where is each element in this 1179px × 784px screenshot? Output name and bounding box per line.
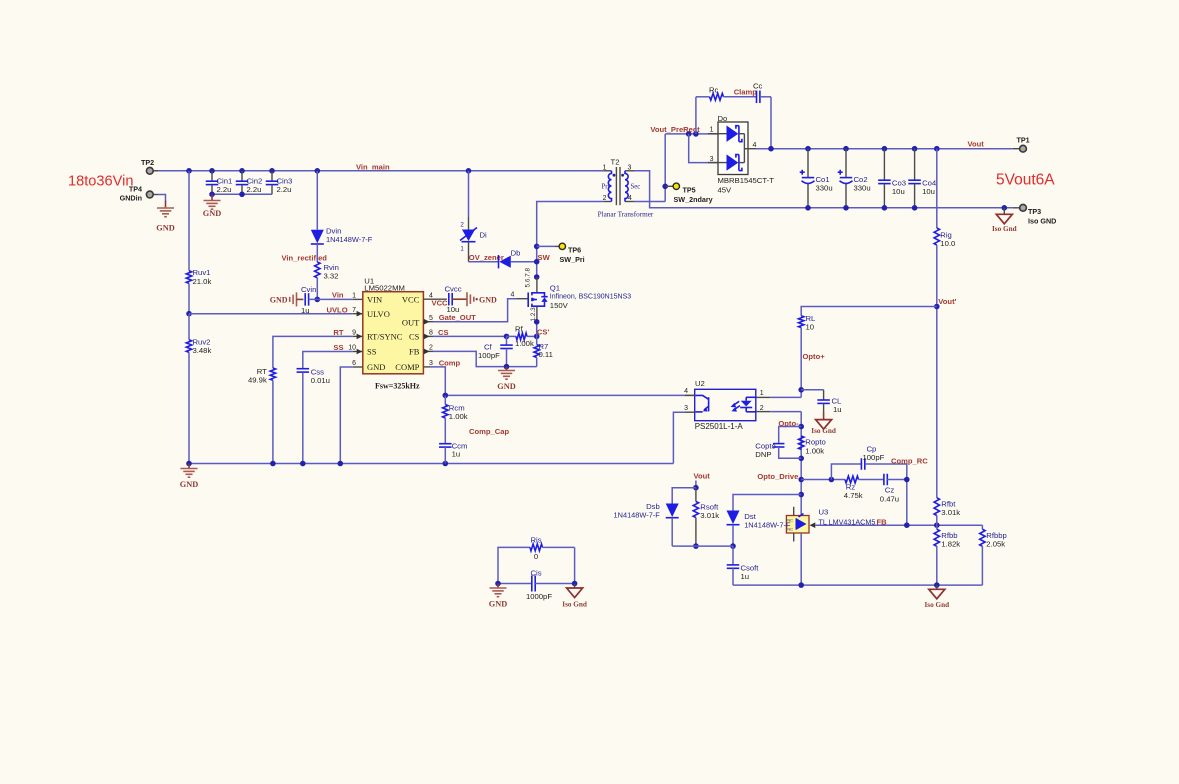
svg-text:1N4148W-7-F: 1N4148W-7-F bbox=[326, 235, 373, 244]
resistor Rfbbp 2.05k bbox=[980, 525, 1007, 585]
svg-text:Co4: Co4 bbox=[922, 178, 937, 187]
wire soft start top bbox=[672, 488, 696, 504]
svg-text:Csoft: Csoft bbox=[741, 563, 760, 572]
wire Comp from U1 pin 3 to opto bbox=[423, 358, 694, 398]
wire Cin ground bus bbox=[209, 192, 272, 201]
svg-text:CS: CS bbox=[438, 328, 449, 337]
svg-text:Comp_RC: Comp_RC bbox=[891, 457, 928, 466]
net label CS-prime bbox=[537, 328, 550, 337]
wire RT to ground bus bbox=[272, 380, 274, 463]
diode Dsb 1N4148W-7-F bbox=[614, 502, 679, 520]
wire Vout-prime to RL bbox=[801, 307, 937, 316]
svg-text:U3: U3 bbox=[819, 508, 829, 517]
resistor RL 10 bbox=[799, 314, 817, 332]
wire Gate_OUT from U1 pin 5 to Q1 gate bbox=[423, 291, 528, 324]
capacitor Cvin 1u bbox=[301, 285, 316, 315]
svg-text:Co2: Co2 bbox=[854, 175, 868, 184]
svg-text:GND: GND bbox=[270, 296, 288, 305]
net label UVLO bbox=[327, 305, 348, 314]
wire primary ground bus bbox=[186, 461, 673, 467]
resistor Rvin 3.32 bbox=[315, 262, 339, 280]
net label Opto_Drive bbox=[757, 472, 798, 481]
svg-text:3: 3 bbox=[710, 156, 714, 163]
svg-text:Vin_rectified: Vin_rectified bbox=[282, 253, 328, 262]
svg-text:5Vout6A: 5Vout6A bbox=[996, 172, 1055, 189]
net label Vout-prime bbox=[938, 297, 956, 306]
resistor Rz 4.75k bbox=[844, 476, 863, 500]
svg-text:Opto_Drive: Opto_Drive bbox=[757, 472, 798, 481]
diode Db bbox=[469, 248, 537, 268]
svg-text:2.2u: 2.2u bbox=[217, 185, 232, 194]
svg-text:UVLO: UVLO bbox=[327, 305, 348, 314]
svg-text:RT: RT bbox=[333, 328, 343, 337]
svg-text:GND: GND bbox=[479, 295, 497, 304]
svg-text:45V: 45V bbox=[718, 186, 733, 195]
svg-text:330u: 330u bbox=[816, 184, 833, 193]
svg-text:Cis: Cis bbox=[530, 568, 541, 577]
svg-text:1: 1 bbox=[710, 127, 714, 134]
wire Vout output rail bbox=[748, 146, 1013, 152]
svg-text:GNDin: GNDin bbox=[120, 194, 142, 203]
test point TP2 bbox=[141, 158, 158, 174]
resistor Ris 0 bbox=[498, 535, 575, 583]
svg-text:Q1: Q1 bbox=[550, 283, 560, 292]
svg-text:FB: FB bbox=[409, 347, 420, 357]
svg-text:7: 7 bbox=[352, 307, 356, 314]
wire Q1 source to CS-prime bbox=[534, 319, 540, 336]
svg-text:Cvin: Cvin bbox=[301, 285, 316, 294]
iso ground at CL bbox=[811, 412, 836, 435]
wire Rig to Vout-prime bbox=[934, 245, 940, 498]
svg-text:1.82k: 1.82k bbox=[941, 540, 960, 549]
wire RT to U1 pin 9 bbox=[273, 328, 363, 368]
svg-text:Infineon, BSC190N15NS3: Infineon, BSC190N15NS3 bbox=[550, 293, 631, 300]
svg-text:Vin: Vin bbox=[332, 291, 344, 300]
capacitor Cis 1000pF bbox=[495, 547, 577, 601]
wire Dvin to Rvin bbox=[316, 244, 318, 262]
wire U1 GND pin 6 to ground bus bbox=[340, 367, 363, 464]
op-amp U3 TL LMV431ACM5 shunt regulator bbox=[786, 507, 875, 542]
svg-text:CS': CS' bbox=[537, 328, 550, 337]
net label Vout at soft start bbox=[693, 471, 710, 490]
svg-text:U2: U2 bbox=[695, 379, 705, 388]
svg-text:Sec: Sec bbox=[631, 184, 641, 191]
svg-text:1.00k: 1.00k bbox=[805, 446, 824, 455]
svg-text:SS: SS bbox=[367, 347, 377, 357]
ground symbol at Cis bbox=[489, 584, 507, 609]
ground symbol at TP4 bbox=[156, 208, 174, 233]
test point TP1 bbox=[1013, 135, 1030, 152]
wire U3 anode to iso bus bbox=[800, 533, 802, 585]
svg-text:1.00k: 1.00k bbox=[449, 412, 468, 421]
wire UVLO to U1 pin 7 bbox=[189, 311, 363, 317]
svg-text:Di: Di bbox=[480, 230, 488, 239]
capacitor Co3 10u bbox=[878, 149, 906, 208]
svg-text:0.01u: 0.01u bbox=[311, 376, 330, 385]
capacitor Ccm 1u bbox=[439, 418, 467, 464]
svg-text:T2: T2 bbox=[611, 157, 620, 166]
svg-text:TP6: TP6 bbox=[568, 246, 581, 255]
svg-text:3.48k: 3.48k bbox=[193, 346, 212, 355]
diode Di OV zener bbox=[460, 217, 487, 262]
wire Cvin to U1 VIN bbox=[309, 298, 363, 300]
node Vin_main junctions bbox=[186, 168, 471, 174]
U1 Fsw label bbox=[375, 381, 420, 390]
svg-text:Iso Gnd: Iso Gnd bbox=[992, 225, 1017, 233]
svg-text:MBRB1545CT-T: MBRB1545CT-T bbox=[718, 176, 775, 185]
resistor Rfbt 3.01k bbox=[934, 498, 960, 526]
svg-text:GND: GND bbox=[180, 480, 198, 489]
wire U2 pin 3 to primary ground bus bbox=[673, 412, 694, 463]
wire Vout_PreRect node bbox=[665, 131, 718, 137]
svg-text:VIN: VIN bbox=[367, 294, 382, 304]
wire FB from U1 pin 2 to CS filter ground bbox=[423, 349, 536, 370]
wire Vin_main to Di bbox=[468, 171, 470, 217]
wire Vin_main bus bbox=[152, 170, 604, 172]
svg-text:Ris: Ris bbox=[530, 535, 541, 544]
capacitor Copto DNP bbox=[755, 427, 801, 459]
svg-text:21.0k: 21.0k bbox=[193, 277, 212, 286]
svg-text:Vout: Vout bbox=[694, 471, 711, 480]
svg-text:0.47u: 0.47u bbox=[880, 494, 899, 503]
wire U2 pin 2 to Opto- bbox=[756, 412, 804, 516]
svg-text:Cz: Cz bbox=[885, 485, 895, 494]
wire Rc to Cc bbox=[724, 96, 757, 98]
net label Comp_RC bbox=[891, 457, 928, 466]
svg-text:2: 2 bbox=[760, 405, 764, 412]
wire Vout sense drop bbox=[936, 149, 938, 228]
svg-text:10u: 10u bbox=[922, 187, 935, 196]
svg-text:Gate_OUT: Gate_OUT bbox=[439, 313, 476, 322]
svg-text:Vout: Vout bbox=[968, 140, 985, 149]
test point TP5 SW_2ndary bbox=[665, 183, 712, 204]
svg-text:OUT: OUT bbox=[402, 318, 420, 328]
net label Comp_Cap bbox=[469, 427, 509, 436]
wire U1 VCC pin 4 to Cvcc bbox=[423, 298, 448, 307]
svg-text:100pF: 100pF bbox=[863, 453, 885, 462]
resistor Ropto 1.00k bbox=[799, 436, 826, 455]
svg-text:RT/SYNC: RT/SYNC bbox=[367, 332, 403, 342]
svg-text:49.9k: 49.9k bbox=[248, 375, 267, 384]
wire Css to ground bus bbox=[302, 373, 304, 464]
svg-text:Dst: Dst bbox=[744, 512, 756, 521]
svg-text:1N4148W-7-F: 1N4148W-7-F bbox=[614, 510, 661, 519]
big label 18to36Vin bbox=[68, 174, 133, 190]
net label Vin_rectified bbox=[282, 253, 328, 262]
svg-text:TP4: TP4 bbox=[129, 185, 142, 194]
svg-text:4: 4 bbox=[684, 388, 688, 395]
capacitor Cin1 2.2u bbox=[206, 171, 233, 195]
svg-text:8: 8 bbox=[429, 330, 433, 337]
transistor Q1 Infineon BSC190N15NS3 bbox=[525, 268, 632, 322]
svg-text:SW_2ndary: SW_2ndary bbox=[674, 195, 713, 204]
diode Do MBRB1545CT-T dual rectifier bbox=[708, 114, 774, 195]
wire U2 pin 4 stub bbox=[685, 394, 695, 396]
svg-text:2: 2 bbox=[429, 345, 433, 352]
capacitor Csoft 1u bbox=[727, 546, 760, 585]
wire Ruv1 to divider node bbox=[186, 283, 192, 316]
big label 5Vout6A bbox=[996, 172, 1055, 189]
svg-text:COMP: COMP bbox=[395, 362, 419, 372]
svg-text:TP5: TP5 bbox=[683, 185, 696, 194]
svg-text:1: 1 bbox=[460, 245, 464, 252]
net label OV_zener bbox=[469, 253, 504, 262]
resistor Rcm 1.00k bbox=[443, 395, 468, 421]
svg-text:CS: CS bbox=[409, 332, 420, 342]
svg-text:Fsw=325kHz: Fsw=325kHz bbox=[375, 381, 420, 390]
svg-text:LM5022MM: LM5022MM bbox=[364, 284, 405, 293]
wire left column from bus to Ruv1 bbox=[188, 171, 190, 271]
svg-text:VCC: VCC bbox=[402, 294, 420, 304]
resistor Ruv1 21.0k bbox=[186, 268, 211, 286]
test point TP6 SW_Pri bbox=[537, 243, 585, 264]
svg-text:0: 0 bbox=[534, 552, 538, 561]
svg-text:5: 5 bbox=[429, 315, 433, 322]
svg-text:1000pF: 1000pF bbox=[526, 592, 552, 601]
wire TP4 to ground bbox=[158, 195, 166, 208]
svg-text:Cvcc: Cvcc bbox=[445, 285, 462, 294]
svg-text:2.2u: 2.2u bbox=[277, 185, 292, 194]
svg-text:Rf: Rf bbox=[515, 324, 524, 333]
iso ground at Cis bbox=[562, 584, 587, 609]
svg-text:SW: SW bbox=[538, 253, 551, 262]
wire SW primary switch node bbox=[534, 202, 604, 280]
U1 pin names bbox=[367, 294, 420, 372]
resistor RT 49.9k bbox=[248, 367, 276, 385]
wire Do pin 3 branch bbox=[689, 134, 718, 163]
wire Ruv2 to ground bus bbox=[188, 352, 190, 463]
svg-text:Opto+: Opto+ bbox=[803, 352, 826, 361]
svg-text:3: 3 bbox=[628, 165, 632, 172]
wire Rz to Cz bbox=[859, 479, 884, 481]
svg-text:2.2u: 2.2u bbox=[247, 185, 262, 194]
svg-text:10.0: 10.0 bbox=[940, 239, 955, 248]
svg-text:ULVO: ULVO bbox=[367, 309, 390, 319]
svg-text:GND: GND bbox=[497, 382, 515, 391]
svg-text:10: 10 bbox=[348, 345, 356, 352]
svg-text:CL: CL bbox=[832, 396, 843, 405]
svg-text:Comp_Cap: Comp_Cap bbox=[469, 427, 509, 436]
svg-text:18to36Vin: 18to36Vin bbox=[68, 174, 133, 190]
svg-text:2: 2 bbox=[603, 195, 607, 202]
power GND at Cvcc bbox=[452, 292, 497, 306]
capacitor Co1 330u bbox=[800, 149, 833, 208]
svg-text:1: 1 bbox=[760, 390, 764, 397]
svg-text:330u: 330u bbox=[854, 184, 871, 193]
svg-text:GND: GND bbox=[156, 224, 174, 233]
test point TP3 Iso GND bbox=[1013, 204, 1057, 225]
svg-text:Vout': Vout' bbox=[938, 297, 956, 306]
wire RL to Opto+ node bbox=[798, 328, 804, 398]
wire soft start bottom bbox=[672, 545, 733, 547]
svg-text:10: 10 bbox=[806, 323, 815, 332]
svg-text:DNP: DNP bbox=[755, 450, 771, 459]
capacitor Cp 100pF parallel branch bbox=[831, 444, 909, 525]
svg-text:3: 3 bbox=[684, 405, 688, 412]
svg-text:Co3: Co3 bbox=[892, 178, 906, 187]
svg-text:1u: 1u bbox=[833, 405, 842, 414]
wire secondary pin 4 riser to Vout_PreRect bbox=[634, 134, 668, 202]
wire Dst to Csoft bbox=[730, 525, 736, 549]
resistor Rf 1.00k bbox=[507, 324, 540, 348]
net label Vout_PreRect bbox=[650, 125, 700, 134]
svg-text:1N4148W-7-F: 1N4148W-7-F bbox=[744, 521, 791, 530]
wire SS to U1 pin 10 bbox=[303, 343, 363, 368]
svg-text:GND: GND bbox=[489, 600, 507, 609]
net label Vin bbox=[332, 291, 344, 300]
svg-text:1u: 1u bbox=[741, 572, 750, 581]
U1 pin numbers bbox=[348, 292, 433, 367]
resistor Rsoft 3.01k bbox=[693, 488, 719, 549]
capacitor Cz 0.47u bbox=[880, 474, 907, 504]
resistor Rc bbox=[709, 85, 724, 100]
op-amp U1 LM5022MM controller box bbox=[363, 276, 424, 374]
svg-text:Vout_PreRect: Vout_PreRect bbox=[650, 125, 700, 134]
svg-text:2.05k: 2.05k bbox=[986, 540, 1005, 549]
svg-text:4: 4 bbox=[753, 142, 757, 149]
svg-text:2: 2 bbox=[460, 221, 464, 228]
capacitor CL 1u bbox=[801, 390, 842, 414]
op-amp U2 PS2501L-1-A optocoupler bbox=[695, 379, 756, 431]
svg-text:Comp: Comp bbox=[439, 358, 461, 367]
svg-text:Db: Db bbox=[511, 248, 521, 257]
wire Opto_Drive to Rz bbox=[801, 477, 845, 483]
svg-text:Iso Gnd: Iso Gnd bbox=[562, 601, 587, 609]
iso ground at feedback bus bbox=[925, 585, 950, 609]
resistor Ruv2 3.48k bbox=[186, 314, 211, 355]
resistor Rfbb 1.82k bbox=[934, 525, 960, 585]
diode Dst 1N4148W-7-F bbox=[727, 511, 791, 530]
wire Opto_Drive to Dst bbox=[733, 495, 801, 511]
svg-text:100pF: 100pF bbox=[478, 351, 500, 360]
svg-text:4.75k: 4.75k bbox=[844, 491, 863, 500]
capacitor Cvcc 10u bbox=[445, 285, 462, 315]
svg-text:Iso Gnd: Iso Gnd bbox=[811, 427, 836, 435]
svg-text:9: 9 bbox=[352, 330, 356, 337]
diode Dvin 1N4148W-7-F bbox=[311, 226, 373, 244]
svg-text:1: 1 bbox=[603, 165, 607, 172]
svg-text:SS: SS bbox=[333, 343, 343, 352]
svg-text:3.01k: 3.01k bbox=[941, 508, 960, 517]
net label Clamp bbox=[734, 87, 758, 96]
svg-text:4: 4 bbox=[511, 291, 515, 298]
svg-text:Iso Gnd: Iso Gnd bbox=[925, 601, 950, 609]
iso ground at output rail bbox=[992, 208, 1017, 233]
svg-text:1u: 1u bbox=[452, 449, 461, 458]
svg-text:Do: Do bbox=[718, 114, 728, 123]
wire U2 pin 1 bbox=[756, 390, 801, 398]
net label Vout bbox=[968, 140, 985, 149]
wire secondary pin 3 to iso return rail bbox=[634, 171, 1013, 208]
net label FB bbox=[877, 517, 888, 526]
U2 pin numbers left bbox=[684, 388, 764, 412]
net label SW bbox=[538, 253, 551, 262]
capacitor Cin2 2.2u bbox=[236, 171, 263, 195]
wire clamp riser left bbox=[696, 97, 710, 134]
svg-text:TP3: TP3 bbox=[1028, 207, 1041, 216]
svg-text:Iso GND: Iso GND bbox=[1028, 217, 1056, 226]
wire iso feedback bus bbox=[733, 582, 982, 588]
ground symbol at Cf bbox=[497, 367, 515, 391]
svg-text:Pri: Pri bbox=[602, 184, 610, 191]
test point TP4 GNDin bbox=[120, 185, 158, 203]
wire Cc to output node bbox=[760, 97, 771, 149]
capacitor Co2 330u bbox=[838, 149, 871, 208]
svg-text:0.11: 0.11 bbox=[539, 350, 553, 359]
svg-text:4: 4 bbox=[628, 195, 632, 202]
svg-text:TP2: TP2 bbox=[141, 158, 154, 167]
wire CS from U1 pin 8 bbox=[423, 328, 509, 339]
wire Vin_main to Dvin bbox=[316, 171, 318, 230]
svg-text:TP1: TP1 bbox=[1017, 135, 1030, 144]
svg-text:1u: 1u bbox=[301, 306, 310, 315]
capacitor Co4 10u bbox=[908, 149, 937, 208]
resistor Rig 10.0 bbox=[934, 228, 955, 248]
power GND at Cvin bbox=[270, 292, 304, 306]
wire Rvin to Vin node bbox=[315, 278, 321, 302]
svg-text:3.32: 3.32 bbox=[324, 271, 339, 280]
svg-text:GND: GND bbox=[203, 209, 221, 218]
svg-text:Co1: Co1 bbox=[816, 175, 830, 184]
wire FB reference bbox=[810, 522, 983, 528]
wire Dsb to bottom bbox=[671, 518, 673, 546]
transformer T2 Planar Transformer bbox=[598, 157, 654, 218]
svg-text:6: 6 bbox=[352, 360, 356, 367]
svg-text:3.01k: 3.01k bbox=[700, 511, 719, 520]
ground symbol at Cin bbox=[203, 201, 221, 219]
svg-text:1.00k: 1.00k bbox=[515, 339, 534, 348]
svg-text:GND: GND bbox=[367, 362, 385, 372]
svg-text:5.6.7.8: 5.6.7.8 bbox=[525, 268, 532, 288]
net label Opto- bbox=[778, 419, 799, 428]
svg-text:10u: 10u bbox=[892, 187, 905, 196]
capacitor Cf 100pF bbox=[478, 336, 513, 366]
net label Vin_main bbox=[356, 162, 390, 171]
svg-text:SW_Pri: SW_Pri bbox=[560, 255, 585, 264]
capacitor Cin3 2.2u bbox=[266, 171, 293, 195]
svg-text:Planar Transformer: Planar Transformer bbox=[598, 211, 654, 219]
svg-text:Cc: Cc bbox=[753, 81, 763, 90]
svg-text:Rc: Rc bbox=[709, 85, 719, 94]
net label Opto+ bbox=[803, 352, 826, 361]
node iso return rail junctions bbox=[805, 205, 1007, 211]
svg-text:1: 1 bbox=[352, 292, 356, 299]
resistor R7 0.11 bbox=[534, 336, 553, 366]
capacitor Cc bbox=[753, 81, 763, 103]
svg-text:PS2501L-1-A: PS2501L-1-A bbox=[695, 422, 744, 431]
svg-text:Vin_main: Vin_main bbox=[356, 162, 390, 171]
ground symbol at bus bbox=[180, 464, 198, 490]
svg-text:150V: 150V bbox=[550, 301, 569, 310]
capacitor Css 0.01u bbox=[297, 367, 330, 385]
